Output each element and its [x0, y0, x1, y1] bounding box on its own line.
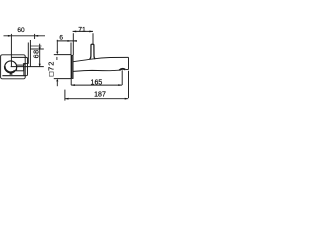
dimension 68 stem	[39, 44, 41, 67]
handle circle accent arc	[5, 66, 15, 72]
dimension 187 right arrow	[125, 98, 129, 100]
dimension 187 line	[65, 98, 128, 100]
aerator bump	[119, 69, 125, 70]
dimension 60 right extension	[34, 34, 36, 39]
dimension 71 line	[73, 30, 93, 32]
dimension square72 bottom arrow	[56, 79, 58, 82]
handle marker nub	[10, 73, 13, 75]
dimension 71 left extension / slab front face	[72, 33, 74, 55]
dimension square72 top arrow	[56, 52, 58, 55]
dimension 165 right extension	[121, 70, 123, 85]
svg-text:60: 60	[17, 27, 25, 34]
dimension 68 upper arrow	[39, 47, 41, 50]
dimension 71 left arrow	[73, 30, 77, 32]
dimension square72 top stem	[56, 40, 58, 52]
dimension 60 left arrow	[8, 35, 12, 37]
dimension square72 top extension	[54, 54, 71, 56]
dimension 71 right extension	[92, 33, 94, 44]
svg-text:68: 68	[32, 49, 41, 58]
svg-text:165: 165	[91, 80, 103, 87]
spout lever side view	[90, 44, 96, 59]
dimension 6 left arrow	[68, 40, 72, 42]
inner mechanism bracket vertical	[27, 43, 29, 64]
dimension 165 left arrow	[71, 84, 75, 86]
dimension 71 right arrow	[89, 30, 93, 32]
spout top line	[73, 57, 128, 61]
dimension 165 left extension	[70, 79, 72, 85]
spout end face	[128, 57, 130, 69]
inner mechanism bracket foot	[24, 63, 28, 65]
dimension 68 upper extension b	[31, 48, 44, 50]
svg-text:71: 71	[78, 26, 86, 33]
functional box right edge	[29, 40, 31, 67]
front escutcheon plate	[1, 55, 26, 79]
dimension 68 bottom extension through circle	[11, 66, 44, 68]
dimension 165 line	[71, 84, 122, 86]
dimension 6 right arrow	[73, 40, 77, 42]
lever end stem	[23, 67, 25, 76]
inner offset plate	[12, 57, 28, 75]
dimension 165 right arrow	[118, 84, 122, 86]
inner offset plate bottom edge	[2, 75, 26, 77]
dimension 187 right extension	[128, 71, 130, 98]
dimension 6 line	[57, 40, 77, 42]
spout underside	[73, 70, 119, 71]
spout underside tip segment	[125, 68, 128, 70]
lever front view	[17, 65, 24, 71]
svg-text:187: 187	[94, 91, 106, 98]
handle circle	[5, 61, 17, 73]
dimension 60 line	[4, 35, 46, 37]
lever end arrow	[23, 63, 25, 66]
wall escutcheon slab	[71, 55, 74, 78]
dimension 68 upper extension a	[31, 45, 42, 47]
dimension 68 lower arrow	[39, 64, 41, 67]
dimension 6 left extension / wall face	[70, 43, 72, 56]
svg-text:□72: □72	[46, 61, 55, 77]
dimension 187 left arrow	[65, 98, 69, 100]
dimension square72 bottom stem	[56, 81, 58, 86]
dimension 187 left extension	[64, 90, 66, 101]
dimension 60 right arrow	[35, 35, 39, 37]
dimension square72 bottom extension	[54, 78, 71, 80]
centerline / left extension into circle	[10, 34, 12, 67]
svg-text:6: 6	[59, 35, 63, 42]
